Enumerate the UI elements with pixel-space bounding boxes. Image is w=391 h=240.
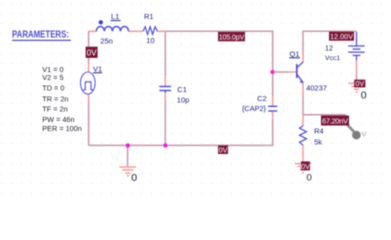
probe marker V (347, 124, 367, 140)
transistor Q1 (297, 62, 304, 83)
svg-text:40237: 40237 (306, 84, 327, 93)
wire C1 upper (164, 31, 166, 76)
junction bus-ground (126, 143, 130, 147)
svg-text:Vcc1: Vcc1 (325, 55, 340, 62)
svg-text:V: V (362, 131, 367, 138)
svg-text:C2: C2 (257, 94, 267, 103)
wire V1 top stub (88, 63, 90, 72)
wire V1 to bottom bus (88, 101, 90, 145)
wire top bus to junction drop (166, 31, 273, 72)
bias label 0V at V1 (86, 47, 98, 58)
resistor R4 (300, 126, 307, 146)
wire top-left corner to L1 (89, 30, 97, 32)
capacitor C2 (268, 106, 277, 111)
wire R4 top stub (302, 115, 304, 126)
wire C1 to bottom bus (164, 101, 166, 145)
svg-text:67.20nV: 67.20nV (322, 117, 348, 126)
inductor L1 (96, 26, 128, 31)
wire left vertical (88, 31, 90, 63)
bias label 0V R4 ground (301, 161, 310, 170)
wire base (273, 71, 289, 73)
wire L1 to R1 (129, 30, 144, 32)
svg-text:R4: R4 (314, 126, 324, 135)
svg-text:TD = 0: TD = 0 (42, 84, 64, 93)
bias label 105.0pV (218, 32, 245, 42)
text heading PARAMETERS (12, 29, 71, 41)
label V1 (93, 64, 102, 73)
junction bus-C1 (163, 143, 167, 147)
bias label 0V bottom bus (218, 145, 228, 154)
svg-text:105.0pV: 105.0pV (219, 33, 245, 42)
wire battery top stub (352, 30, 357, 32)
ground battery (348, 83, 364, 92)
svg-text:TF = 2n: TF = 2n (42, 105, 67, 114)
svg-text:L1: L1 (111, 12, 119, 21)
svg-text:0: 0 (361, 89, 367, 101)
wire ground stem (127, 145, 129, 166)
wire junction to C2 (272, 72, 274, 96)
svg-text:V2 = 5: V2 = 5 (42, 73, 63, 82)
svg-text:V1: V1 (93, 64, 102, 73)
wire R1 right stub (158, 30, 166, 32)
svg-text:Q1: Q1 (290, 49, 300, 58)
parameter value list (42, 65, 82, 133)
resistor R1 (143, 27, 158, 35)
svg-text:TR = 2n: TR = 2n (42, 95, 68, 104)
capacitor C1 (159, 87, 171, 93)
wire collector stub (302, 53, 304, 62)
svg-text:{CAP2}: {CAP2} (242, 104, 266, 113)
wire C2 top stub (272, 96, 274, 106)
svg-text:0V: 0V (355, 79, 364, 88)
bias label 0V battery ground (354, 79, 365, 88)
junction at base node (270, 70, 274, 74)
wire C1 bottom stub (164, 93, 166, 101)
wire emitter stub (302, 83, 304, 96)
wire to probe (303, 114, 346, 116)
svg-text:12: 12 (325, 44, 333, 53)
bias label 67.20nV (321, 116, 349, 126)
svg-text:10: 10 (146, 36, 154, 45)
ground R4 (295, 164, 311, 173)
wire C2 bottom stub (272, 112, 274, 119)
wire bottom bus with riser to C2 (89, 119, 273, 145)
label L1 (111, 12, 121, 21)
wire R4 bottom stub (302, 145, 304, 161)
wire collector to top-right bus (303, 31, 352, 53)
bias label 12.00V (329, 32, 354, 41)
svg-text:0V: 0V (219, 146, 228, 155)
svg-text:0V: 0V (301, 162, 310, 171)
wire battery bottom stub (356, 60, 358, 73)
svg-text:0: 0 (131, 172, 137, 184)
svg-text:PARAMETERS:: PARAMETERS: (12, 29, 69, 40)
svg-text:5k: 5k (314, 138, 322, 147)
wire emitter down (302, 96, 304, 115)
current marker on L1 (99, 20, 103, 24)
svg-text:0V: 0V (87, 48, 98, 57)
wire C1 top stub (164, 76, 166, 87)
wire V1 bottom stub (88, 94, 90, 101)
svg-text:10p: 10p (177, 95, 190, 104)
svg-text:PER = 100n: PER = 100n (42, 124, 82, 133)
source V1 (81, 72, 96, 94)
svg-text:C1: C1 (177, 85, 187, 94)
battery Vcc1 (348, 32, 365, 61)
wire base stub (289, 71, 297, 73)
svg-text:12.00V: 12.00V (330, 32, 353, 41)
svg-text:25n: 25n (100, 37, 113, 46)
svg-text:PW = 46n: PW = 46n (42, 115, 74, 124)
wire battery to ground (356, 73, 358, 82)
svg-text:0: 0 (307, 172, 312, 183)
svg-text:R1: R1 (144, 12, 154, 21)
label Q1 (289, 49, 300, 58)
ground main (120, 167, 137, 176)
